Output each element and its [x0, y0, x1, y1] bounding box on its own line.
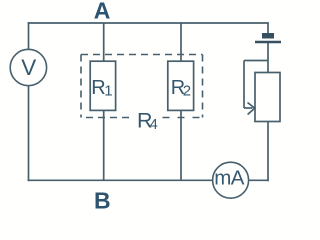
ammeter mA: [213, 162, 249, 198]
label R4: [137, 108, 158, 133]
dashed box R4 bottom edge left part: [81, 117, 129, 119]
battery cell: long thin positive plate: [255, 41, 281, 43]
wire: rheostat bottom to bottom bus: [267, 122, 269, 182]
wire: top bus from node A left corner to right corner: [28, 22, 268, 24]
svg-text:mA: mA: [214, 166, 244, 189]
resistor R2: [168, 61, 194, 110]
svg-text:V: V: [21, 55, 36, 80]
battery cell: short thick negative plate: [262, 33, 274, 39]
wire: bottom bus left of ammeter: [28, 179, 213, 181]
svg-text:2: 2: [183, 83, 191, 100]
svg-text:4: 4: [150, 117, 158, 133]
dashed box R4 left edge: [80, 55, 82, 118]
wire: R2 branch to bottom bus: [180, 110, 182, 180]
rheostat wiper tap: horizontal from right bus: [244, 60, 268, 62]
svg-text:A: A: [94, 0, 111, 24]
wire: bottom bus right of ammeter: [249, 179, 269, 181]
wire: left branch upper segment: [28, 22, 30, 50]
rheostat body box: [255, 73, 280, 122]
wire: left branch lower segment: [28, 86, 30, 182]
svg-text:1: 1: [104, 83, 112, 100]
wire: right bus from top corner down to battery: [267, 22, 269, 34]
wire: R1 branch from top bus: [103, 23, 105, 61]
dashed equivalent-resistance box R4 (top edge): [81, 54, 203, 56]
rheostat wiper tap: left vertical: [243, 61, 245, 109]
voltmeter V: [10, 49, 46, 85]
svg-text:B: B: [94, 187, 111, 213]
rheostat wiper arrow: [244, 103, 255, 115]
wire: R1 branch to bottom bus: [103, 110, 105, 180]
resistor R1: [90, 61, 115, 110]
wire: battery to rheostat top: [267, 43, 269, 73]
wire: R2 branch from top bus: [180, 23, 182, 61]
dashed box R4 right edge: [202, 55, 204, 118]
dashed box R4 bottom edge right part: [163, 117, 203, 119]
